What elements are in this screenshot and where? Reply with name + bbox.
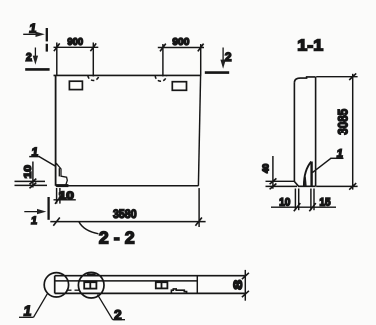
plan view: inner rebate line — [55, 280, 198, 282]
svg-text:1-1: 1-1 — [297, 37, 323, 54]
dim 40: extension lines — [266, 180, 295, 182]
svg-text:900: 900 — [172, 37, 189, 48]
section marker 1 top: cut line — [46, 28, 48, 52]
dim 10 vertical (corner detail): dimension line — [32, 162, 34, 188]
dim 3085: extension lines — [316, 76, 357, 78]
corner drip detail bottom-left (front view) — [56, 163, 68, 185]
svg-text:15: 15 — [319, 197, 330, 209]
dim 40: dimension line — [272, 156, 274, 189]
svg-text:8: 8 — [231, 279, 245, 289]
front view panel outline — [54, 75, 201, 185]
dim 10 horizontal: tick — [55, 196, 61, 204]
side view drip rib: dark foot — [304, 176, 307, 186]
dims 10/15 bottom (side view): extension lines — [295, 189, 314, 211]
side view drip rib: thick edge — [310, 162, 312, 186]
svg-text:10: 10 — [59, 190, 74, 202]
dim 10 vertical: ticks — [30, 179, 37, 185]
svg-text:1: 1 — [30, 215, 38, 227]
section marker 2 left: digit underline — [25, 60, 33, 62]
hole left (front view) — [69, 81, 82, 89]
section marker 2 left: arrow — [33, 48, 38, 65]
hole right (front view) — [172, 82, 186, 91]
dim 900 right: extension lines — [162, 44, 164, 77]
dims 10/15 bottom: ticks — [294, 203, 316, 211]
svg-text:2 - 2: 2 - 2 — [99, 227, 135, 247]
svg-text:3085: 3085 — [335, 109, 351, 135]
detail circle 1 — [44, 273, 68, 297]
dim 3580: ticks — [53, 218, 60, 226]
section marker 2 right: cut line — [205, 71, 229, 74]
dim 900 left: extension lines — [56, 43, 58, 76]
dim 40: ticks — [270, 178, 277, 184]
plan view: top edge thickening above hole 1 — [87, 274, 96, 276]
svg-text:10: 10 — [279, 197, 290, 209]
side view 1-1 outline — [294, 77, 315, 186]
detail circle 2 — [78, 272, 104, 298]
section marker 1 bottom: arrow — [24, 209, 46, 214]
dim 3085: ticks — [349, 73, 356, 80]
dim 900 left: tick marks — [54, 43, 60, 51]
svg-text:10: 10 — [23, 164, 34, 178]
dim 900 right: dimension line — [158, 47, 204, 49]
dim 3085: dimension line — [352, 74, 354, 190]
dim 3580: dimension line — [50, 221, 205, 223]
section marker 1 bottom: cut line — [47, 197, 49, 220]
svg-text:3580: 3580 — [113, 207, 137, 221]
plan view: hole group 1 (in circle 2) — [84, 282, 98, 289]
dim 900 left: dimension line — [54, 46, 99, 48]
dim 10 horizontal (below corner): extension lines — [56, 188, 58, 204]
plan view: hole group 2 — [155, 282, 168, 289]
plan view: bottom notch outline — [171, 289, 186, 293]
svg-text:40: 40 — [261, 163, 271, 173]
dim 10 vertical: extension lines — [15, 180, 46, 182]
plan view: step line — [196, 276, 198, 293]
dim 10 horizontal: dimension line — [54, 199, 76, 201]
callout 1 leader (front view corner) — [29, 157, 56, 167]
plan view 2-2: bar outline — [55, 276, 245, 294]
dim 3580: extension line right — [198, 188, 200, 227]
leader arc to title 2-2 — [79, 222, 99, 234]
dim 900 right: tick marks — [160, 44, 166, 52]
dim 8 (plan): dimension line — [244, 270, 246, 301]
dim 8 (plan): ticks — [242, 273, 249, 297]
svg-text:2: 2 — [114, 306, 122, 322]
dims 10/15 bottom: dimension line — [271, 206, 336, 208]
section marker 2 right: arrow — [220, 48, 225, 69]
side view drip rib (detail 1): curve — [304, 162, 311, 186]
leader to detail digit 1 (plan) — [19, 294, 47, 318]
svg-text:900: 900 — [67, 37, 83, 48]
section marker 1 top: arrow — [23, 32, 45, 37]
lifting notch right (dashed arc) — [155, 76, 166, 82]
leader to detail digit 2 (plan) — [98, 295, 126, 320]
lifting notch left (dashed arc) — [88, 76, 99, 81]
section marker 2 left: cut line — [25, 68, 49, 71]
callout 1 (side view): leader — [312, 158, 343, 172]
svg-text:2: 2 — [225, 50, 232, 64]
plan view: centerline dashes — [66, 289, 79, 291]
